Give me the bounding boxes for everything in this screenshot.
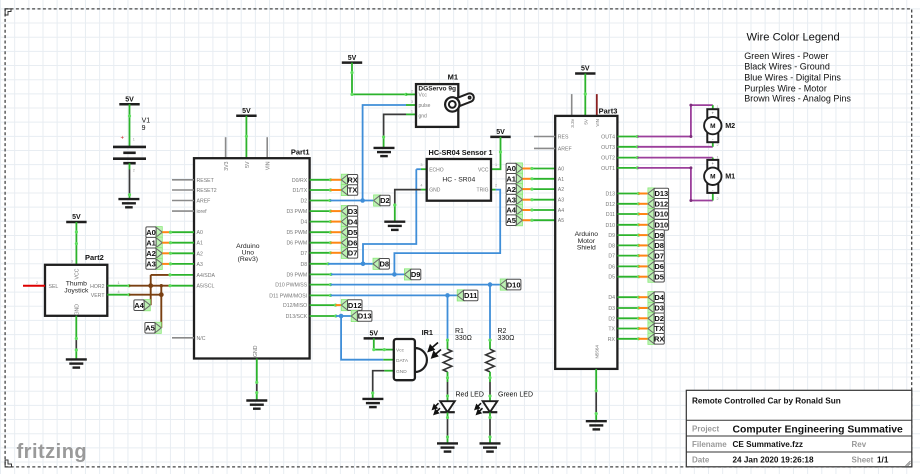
wire D6 orange <box>331 242 342 244</box>
bendpoint <box>245 135 248 138</box>
wire A1 orange <box>523 178 532 180</box>
svg-text:2: 2 <box>133 169 135 173</box>
svg-text:24 Jan 2020 19:26:18: 24 Jan 2020 19:26:18 <box>733 456 814 465</box>
servo M1 (DGServo 9g) <box>411 73 471 127</box>
svg-text:OUT2: OUT2 <box>601 156 615 162</box>
svg-text:A1: A1 <box>146 238 156 247</box>
svg-text:TX: TX <box>348 186 358 195</box>
corner mark top-left <box>5 9 11 15</box>
svg-text:VCC: VCC <box>478 167 489 173</box>
net label A3 (shield) <box>506 194 522 205</box>
wire pin stub <box>310 273 331 275</box>
wire A1 green <box>171 242 195 244</box>
svg-text:D2: D2 <box>301 199 308 205</box>
bendpoint <box>637 202 640 205</box>
svg-text:A4: A4 <box>506 206 516 215</box>
wire pin stub <box>617 224 638 226</box>
svg-text:VERT: VERT <box>91 293 106 299</box>
junction (VERT/A5) <box>159 292 164 297</box>
net label A5 <box>145 322 161 333</box>
wire A4 orange <box>523 209 532 211</box>
bendpoint <box>446 376 449 398</box>
svg-text:A3: A3 <box>146 260 156 269</box>
HC-SR04 Sensor 1 <box>420 148 497 201</box>
wire pin stub <box>310 200 330 202</box>
svg-text:A2: A2 <box>506 185 516 194</box>
junction D11/R1 <box>445 293 450 298</box>
svg-text:R1: R1 <box>455 328 464 335</box>
svg-text:5V: 5V <box>581 66 590 73</box>
wire hc gnd black <box>395 190 421 205</box>
wire R2 top green <box>489 340 491 349</box>
svg-text:D4: D4 <box>348 217 358 226</box>
bendpoint <box>637 234 640 237</box>
bendpoint <box>530 219 533 222</box>
svg-text:D2: D2 <box>654 314 664 323</box>
bendpoint purple <box>689 166 692 202</box>
svg-text:OUT1: OUT1 <box>601 166 615 172</box>
svg-text:D13/SCK: D13/SCK <box>286 314 308 320</box>
bendpoint <box>329 188 332 191</box>
svg-text:V1: V1 <box>142 118 151 125</box>
net label D4 <box>341 216 358 227</box>
svg-text:M2: M2 <box>725 121 735 130</box>
bendpoint <box>595 389 598 415</box>
wire A3 green <box>171 263 195 265</box>
title block text <box>692 397 903 465</box>
pin 3.3v stub <box>571 94 573 116</box>
svg-text:A0: A0 <box>146 228 156 237</box>
net label D13 <box>648 188 669 199</box>
svg-text:Filename: Filename <box>692 440 727 449</box>
svg-text:D8: D8 <box>608 243 615 249</box>
battery V1 <box>113 118 150 164</box>
net label TX <box>341 184 357 195</box>
svg-text:A0: A0 <box>506 164 516 173</box>
svg-text:D13: D13 <box>605 192 615 198</box>
svg-text:1: 1 <box>717 156 719 160</box>
motor M2 <box>704 109 735 142</box>
svg-text:HC-SR04 Sensor 1: HC-SR04 Sensor 1 <box>429 148 493 157</box>
svg-text:N/C: N/C <box>197 336 206 342</box>
bendpoint <box>637 337 640 340</box>
net label D9 <box>648 230 664 241</box>
wire IR gnd stub <box>384 370 394 372</box>
svg-text:D12: D12 <box>654 200 668 209</box>
svg-text:1: 1 <box>411 110 413 114</box>
pin 3V3 stub <box>225 137 227 158</box>
wire Green LED to ground <box>489 413 491 444</box>
wire hc echo stub <box>421 168 427 170</box>
net label RX <box>341 174 358 185</box>
wire joystick GND down <box>75 316 77 360</box>
net label D3 <box>648 302 664 313</box>
ground (shield) <box>586 421 607 429</box>
wire color legend <box>744 32 851 104</box>
fritzing logo <box>17 441 88 463</box>
wire D4 orange <box>639 296 648 298</box>
bendpoint <box>446 416 449 439</box>
junction D2/servo <box>360 198 365 203</box>
net label D10 <box>500 279 521 290</box>
ground (servo) <box>374 148 395 156</box>
wire D2 orange <box>639 317 648 319</box>
svg-text:+: + <box>120 135 124 141</box>
ground (battery) <box>118 199 139 207</box>
svg-text:1/1: 1/1 <box>877 456 889 465</box>
svg-text:Green Wires - Power: Green Wires - Power <box>744 51 828 61</box>
wire Red LED to ground <box>447 413 449 444</box>
svg-text:D3: D3 <box>654 304 664 313</box>
bendpoint <box>329 283 332 286</box>
svg-text:D2: D2 <box>608 316 615 322</box>
svg-text:OUT3: OUT3 <box>601 145 615 151</box>
wire echo blue <box>363 169 421 264</box>
svg-text:Purples Wire - Motor: Purples Wire - Motor <box>744 84 827 94</box>
svg-text:D5: D5 <box>654 272 664 281</box>
bendpoint <box>75 337 78 352</box>
svg-text:D5: D5 <box>608 275 615 281</box>
svg-text:D13: D13 <box>358 312 372 321</box>
net label D5 <box>341 227 357 238</box>
wire trig blue <box>394 190 500 275</box>
svg-text:Vcc: Vcc <box>396 348 405 354</box>
svg-text:330Ω: 330Ω <box>455 335 472 342</box>
svg-text:VIN: VIN <box>266 161 272 170</box>
net label D3 <box>341 206 357 217</box>
bendpoint <box>329 210 332 213</box>
svg-text:D3: D3 <box>608 306 615 312</box>
svg-text:Brown Wires - Analog Pins: Brown Wires - Analog Pins <box>744 94 851 104</box>
svg-text:5V: 5V <box>496 129 505 136</box>
svg-text:Computer Engineering Summative: Computer Engineering Summative <box>733 425 904 436</box>
bendpoint <box>530 198 533 201</box>
svg-text:ECHO: ECHO <box>429 167 444 173</box>
pin N/C stub <box>172 337 194 339</box>
wire brown A4/SDA <box>151 274 170 276</box>
svg-text:M: M <box>710 123 715 130</box>
wire D9 blue <box>331 273 404 275</box>
bendpoint purple <box>689 104 692 138</box>
svg-text:D10 PWM/SS: D10 PWM/SS <box>275 283 308 289</box>
svg-text:Red LED: Red LED <box>456 391 484 398</box>
svg-text:M: M <box>710 174 715 181</box>
svg-text:2: 2 <box>411 90 413 94</box>
bendpoint <box>637 296 640 299</box>
wire servo vcc stub <box>406 93 416 95</box>
svg-text:5V: 5V <box>370 331 379 338</box>
svg-text:A1: A1 <box>506 175 516 184</box>
wire D2 blue <box>330 200 374 202</box>
svg-text:VIN: VIN <box>595 119 600 127</box>
wire A2 orange <box>523 188 532 190</box>
wire OUT3 purple <box>637 146 712 148</box>
svg-text:A4: A4 <box>134 301 144 310</box>
5V symbol (servo) <box>342 55 362 63</box>
wire D11 to R1 blue <box>447 295 449 340</box>
bendpoint <box>127 284 130 296</box>
wire D13 blue <box>336 315 351 317</box>
wire pin stub <box>310 284 331 286</box>
wire A3 orange <box>162 263 170 265</box>
svg-text:D2: D2 <box>380 196 390 205</box>
bendpoint <box>255 381 258 394</box>
wire hc trig stub <box>491 189 496 191</box>
pin ioref stub <box>172 210 194 212</box>
svg-text:D10: D10 <box>654 221 668 230</box>
net label D7 <box>341 247 357 258</box>
svg-text:A5: A5 <box>145 324 155 333</box>
wire IR gnd black <box>373 371 385 393</box>
wire pin stub <box>617 317 638 319</box>
IR arrows <box>429 343 442 358</box>
svg-text:Joystick: Joystick <box>64 287 89 294</box>
bendpoint <box>372 348 386 351</box>
wire M2 bottom stub <box>712 142 714 147</box>
svg-text:D6 PWM: D6 PWM <box>286 241 307 247</box>
pin RES stub <box>534 136 555 138</box>
wire TX orange <box>639 328 648 330</box>
wire hc vcc <box>491 137 501 169</box>
wire R1 to LED <box>447 372 449 401</box>
arduino motor shield Part3 <box>555 107 617 369</box>
net label D2 <box>374 195 390 206</box>
svg-text:Project: Project <box>692 425 719 434</box>
wire D13 to IR DATA blue <box>341 316 383 360</box>
wire battery to ground <box>129 170 131 195</box>
svg-text:Sheet: Sheet <box>852 456 874 465</box>
svg-text:2: 2 <box>717 197 719 201</box>
junction small <box>160 284 163 287</box>
svg-text:A3: A3 <box>506 195 516 204</box>
bendpoint <box>530 208 533 211</box>
wire D4 orange <box>331 221 342 223</box>
wire IR vcc <box>374 338 394 349</box>
svg-text:D12: D12 <box>348 301 362 310</box>
net label D10 <box>648 219 669 230</box>
svg-text:DATA: DATA <box>396 358 409 364</box>
svg-text:D0/RX: D0/RX <box>292 178 308 184</box>
bendpoint <box>128 193 131 196</box>
svg-text:5V: 5V <box>348 55 357 62</box>
svg-text:CE Summative.fzz: CE Summative.fzz <box>733 440 804 449</box>
net label D2 <box>648 313 664 324</box>
svg-text:A5: A5 <box>558 218 564 224</box>
wire pin stub <box>310 294 331 296</box>
wire IR DATA stub <box>383 359 394 361</box>
bendpoint <box>530 188 533 191</box>
wire servo gnd black <box>384 114 406 137</box>
svg-text:M1: M1 <box>448 73 458 82</box>
bendpoint <box>328 199 331 202</box>
pin numbers (joystick) <box>36 260 120 294</box>
wire OUT2 purple <box>637 157 712 159</box>
svg-text:D4: D4 <box>608 295 615 301</box>
svg-text:Wire Color Legend: Wire Color Legend <box>747 32 840 44</box>
ground (Red LED) <box>437 443 458 451</box>
svg-text:3V3: 3V3 <box>224 161 230 170</box>
wire pin stub <box>617 203 638 205</box>
svg-text:R2: R2 <box>498 328 507 335</box>
IR sensor IR1 <box>394 328 433 380</box>
wire pin stub <box>310 179 331 181</box>
svg-text:3.3v: 3.3v <box>570 118 575 127</box>
bendpoint <box>584 92 587 95</box>
svg-text:fritzing: fritzing <box>17 441 88 463</box>
net label D12 <box>648 198 669 209</box>
svg-text:D6: D6 <box>654 262 664 271</box>
svg-text:RX: RX <box>347 176 357 185</box>
pin RESET stub <box>172 179 194 181</box>
5V symbol (hc-sr04) <box>490 129 510 137</box>
wire D6 orange <box>639 265 648 267</box>
5V symbol (arduino) <box>236 108 256 116</box>
ground (arduino) <box>246 401 267 409</box>
wire A2 green <box>532 188 555 190</box>
wire D3 orange <box>639 307 648 309</box>
bendpoint <box>169 262 172 265</box>
svg-text:GND: GND <box>429 188 441 194</box>
5V symbol (joystick) <box>66 214 86 222</box>
motor M1 <box>704 160 735 193</box>
LED (Green LED) <box>475 391 533 414</box>
bendpoint <box>530 177 533 180</box>
net label D4 <box>648 292 665 303</box>
joystick Part2 <box>45 253 107 316</box>
svg-text:5V: 5V <box>584 118 589 125</box>
junction D10/R2 <box>488 282 493 287</box>
svg-text:Vcc: Vcc <box>419 93 428 99</box>
wire A0 orange <box>523 168 532 170</box>
wire pin stub <box>617 234 638 236</box>
svg-text:Blue Wires - Digital Pins: Blue Wires - Digital Pins <box>744 72 841 82</box>
junction (HOR2/A4) <box>148 283 153 288</box>
wire OUT stub <box>617 136 637 138</box>
net label D5 <box>648 271 664 282</box>
ground (joystick) <box>66 359 87 367</box>
wire brown VERT <box>129 294 161 296</box>
wire arduino 5V pin <box>245 116 247 158</box>
wire battery ground end <box>129 195 131 199</box>
wire pin stub <box>617 328 638 330</box>
wire D13 orange <box>639 193 648 195</box>
net label D8 <box>648 240 664 251</box>
wire servo pulse stub <box>406 104 416 106</box>
svg-text:3: 3 <box>420 163 422 167</box>
wire A2 green <box>171 252 195 254</box>
net label D6 <box>341 237 357 248</box>
5V symbol (shield) <box>575 66 595 74</box>
wire A2 orange <box>162 252 170 254</box>
wire D8 blue <box>328 263 373 265</box>
svg-text:D5 PWM: D5 PWM <box>286 230 307 236</box>
wire D9 orange <box>639 234 648 236</box>
svg-text:3: 3 <box>411 100 413 104</box>
wire D3 orange <box>331 210 342 212</box>
net label A4 (shield) <box>506 204 522 215</box>
bendpoint <box>637 244 640 247</box>
wire R1 top green <box>447 340 449 349</box>
svg-text:TX: TX <box>608 327 615 333</box>
svg-text:5V: 5V <box>125 96 134 103</box>
pin VIN stub (red) <box>596 94 598 116</box>
bendpoint <box>169 252 172 255</box>
wire VERT stub <box>107 294 129 296</box>
net label D10 <box>648 208 669 219</box>
bendpoint <box>329 178 332 181</box>
svg-text:Part3: Part3 <box>599 107 618 116</box>
wire RX orange <box>331 179 342 181</box>
wire pin stub <box>617 265 638 267</box>
svg-text:D7: D7 <box>608 254 615 260</box>
svg-text:D7: D7 <box>348 249 358 258</box>
wire brown HOR2-A5/SCL <box>129 285 170 287</box>
net label D13 <box>351 310 372 321</box>
svg-text:RES: RES <box>558 135 569 141</box>
bendpoint <box>75 230 78 245</box>
ground (hc-sr04) <box>384 222 405 230</box>
svg-text:Date: Date <box>692 456 710 465</box>
bendpoint <box>334 304 337 307</box>
svg-text:A5: A5 <box>506 216 516 225</box>
bendpoint <box>637 223 640 226</box>
wire D5 orange <box>331 231 342 233</box>
svg-text:D5: D5 <box>348 228 358 237</box>
svg-text:D12/MISO: D12/MISO <box>283 303 307 309</box>
pin RESET2 stub <box>172 189 194 191</box>
bendpoint <box>637 306 640 309</box>
wire joystick VCC <box>75 222 77 265</box>
bendpoint <box>636 166 639 169</box>
svg-text:D11 PWM/MOSI: D11 PWM/MOSI <box>269 293 307 299</box>
wire D12 orange <box>639 203 648 205</box>
wire D10 orange <box>639 224 648 226</box>
svg-text:OUT4: OUT4 <box>601 135 615 141</box>
svg-text:GND: GND <box>75 304 81 316</box>
svg-text:VCC: VCC <box>75 268 81 279</box>
wire OUT stub <box>617 146 637 148</box>
svg-text:Green LED: Green LED <box>498 391 533 398</box>
wire shield gnd <box>595 369 597 421</box>
svg-text:AREF: AREF <box>197 199 211 205</box>
svg-text:RESET: RESET <box>197 178 215 184</box>
wire TX orange <box>331 189 342 191</box>
ground (IR) <box>362 399 383 407</box>
wire servo 5V <box>352 63 406 95</box>
svg-text:GND: GND <box>253 345 259 357</box>
wire RX orange <box>639 338 648 340</box>
svg-text:D3 PWM: D3 PWM <box>286 209 307 215</box>
wire pin stub <box>617 193 638 195</box>
svg-text:D1/TX: D1/TX <box>292 188 307 194</box>
svg-text:A3: A3 <box>197 262 203 268</box>
wire pin stub <box>310 252 331 254</box>
svg-text:D6: D6 <box>348 238 358 247</box>
net label TX <box>648 323 664 334</box>
svg-text:DGServo 9g: DGServo 9g <box>418 86 456 93</box>
wire IR gnd end <box>372 393 374 399</box>
svg-text:N5564: N5564 <box>595 345 600 359</box>
svg-text:A4/SDA: A4/SDA <box>197 273 216 279</box>
svg-text:+: + <box>711 161 714 166</box>
junction D13/IR <box>339 314 344 319</box>
wire brown vertical to A4 flag <box>150 275 152 305</box>
junction D8/echo <box>361 262 366 267</box>
svg-text:1: 1 <box>717 105 719 109</box>
wire pin stub <box>617 307 638 309</box>
net label A5 (shield) <box>506 215 522 226</box>
wire servo gnd end <box>383 137 385 148</box>
